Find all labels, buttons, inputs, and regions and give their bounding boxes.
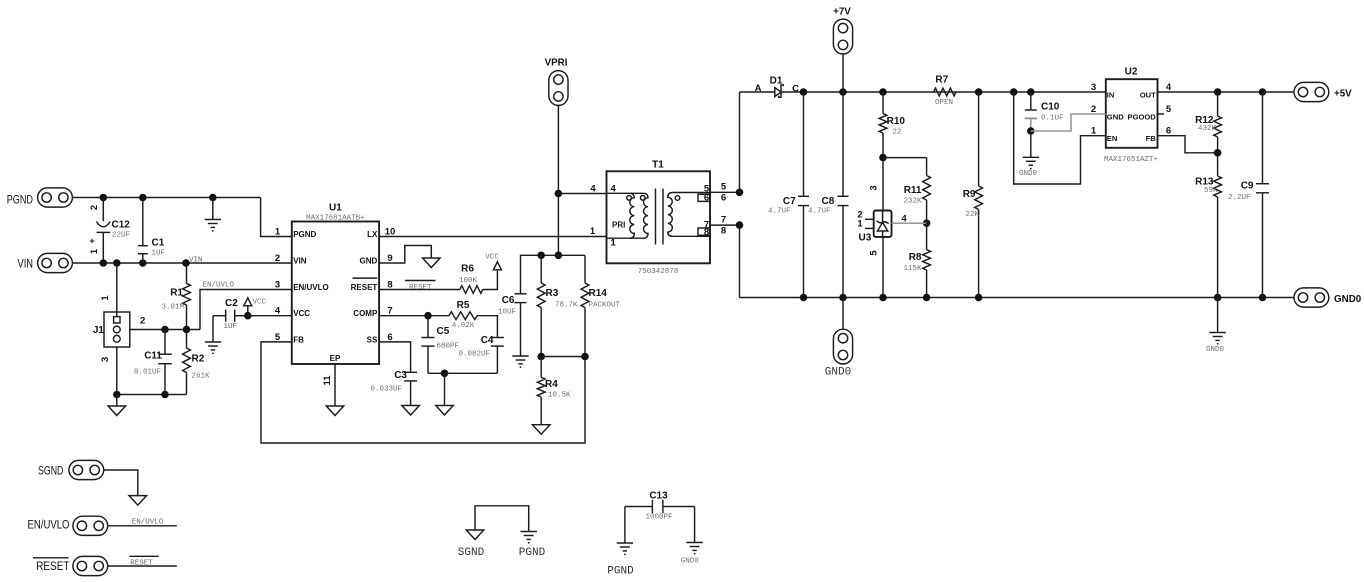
svg-text:R8: R8 (909, 252, 922, 263)
wire R3R4-R14 (541, 356, 585, 358)
resistor R2 (186, 330, 188, 349)
ground earth GND0 C13 (686, 542, 702, 544)
wire RESET (108, 565, 177, 567)
wire COMP pin7 (379, 315, 449, 317)
node D1-C7 (800, 88, 808, 96)
svg-text:78.7K: 78.7K (555, 302, 578, 310)
wire PGND rail (72, 197, 260, 199)
wire EN/UVLO (108, 525, 177, 527)
node VPRI-T1pin4 (555, 190, 563, 198)
capacitor C8 (842, 92, 844, 196)
capacitor C6 (515, 293, 527, 295)
svg-text:1: 1 (100, 295, 111, 301)
capacitor C9 (1262, 92, 1264, 184)
svg-text:LX: LX (367, 230, 378, 239)
T1 pin 7/8 outside (710, 224, 740, 226)
node COMP-C5 (424, 312, 432, 320)
svg-text:VIN: VIN (293, 257, 307, 266)
svg-text:VPRI: VPRI (545, 58, 568, 69)
wire VPRI down (557, 105, 559, 255)
svg-text:5: 5 (721, 182, 727, 193)
svg-text:VCC: VCC (485, 254, 499, 262)
svg-text:C6: C6 (502, 295, 515, 306)
ground earth R13 (1209, 332, 1225, 334)
svg-text:3: 3 (1091, 82, 1096, 93)
wire GND0 rail (740, 297, 1295, 299)
node OUT-C9 (1259, 88, 1267, 96)
svg-text:C4: C4 (481, 335, 494, 346)
svg-text:0.033UF: 0.033UF (370, 386, 402, 394)
svg-text:432K: 432K (1198, 125, 1217, 133)
diode D1 schottky (740, 91, 775, 93)
T1 pins 5/6 bracket (698, 194, 710, 201)
resistor R14 (584, 255, 586, 283)
net label RESET bottom (129, 555, 158, 557)
ground sgnd J1 (116, 395, 118, 407)
svg-text:PGND: PGND (7, 193, 33, 207)
connector +5V (1294, 82, 1329, 101)
node C10 top (1027, 88, 1035, 96)
node VIN-C12 (100, 259, 108, 267)
wire J1 pin2 to EN/UVLO (130, 329, 200, 331)
wire C5-C4 bottom (428, 372, 497, 374)
resistor R8 (926, 223, 928, 250)
node gnd-R9 (975, 294, 983, 302)
svg-text:SGND: SGND (458, 547, 485, 559)
wire +7V stem (842, 54, 844, 92)
ground earth top-left (212, 198, 214, 220)
node +7V stem (839, 88, 847, 96)
svg-text:R1: R1 (170, 288, 183, 299)
svg-text:U1: U1 (329, 203, 342, 214)
svg-text:22UF: 22UF (112, 232, 130, 240)
node PGND-C12 (100, 194, 108, 202)
svg-text:1000PF: 1000PF (645, 514, 672, 522)
svg-text:4.7UF: 4.7UF (768, 208, 791, 216)
connector J1 (116, 263, 118, 317)
svg-text:6: 6 (704, 193, 709, 204)
svg-text:R13: R13 (1195, 177, 1214, 188)
svg-text:U3: U3 (859, 233, 872, 244)
wire VCC to U1 pin4 (248, 315, 292, 317)
node VCC-C2 (244, 312, 252, 320)
svg-text:1UF: 1UF (152, 250, 166, 258)
svg-text:SS: SS (367, 335, 378, 344)
svg-text:1UF: 1UF (224, 323, 238, 331)
wire R6 to VCC (483, 270, 498, 290)
capacitor C3 (404, 371, 417, 373)
svg-text:C12: C12 (112, 220, 131, 231)
svg-text:2: 2 (275, 253, 280, 264)
svg-text:C9: C9 (1241, 181, 1254, 192)
node R12-R13 (1214, 149, 1222, 157)
wire GND pin9 to ground (379, 246, 431, 264)
power VCC arrow C2 (247, 306, 249, 316)
svg-text:4: 4 (901, 214, 907, 225)
resistor R10 (882, 92, 884, 114)
svg-text:R3: R3 (546, 288, 559, 299)
svg-text:A: A (755, 83, 762, 94)
svg-text:3.01M: 3.01M (161, 304, 184, 312)
wire divider rail (521, 255, 586, 293)
node VIN-R1 (182, 259, 190, 267)
svg-text:3: 3 (869, 185, 880, 190)
svg-text:RESET: RESET (409, 284, 432, 292)
node pin2-C11 (161, 326, 169, 334)
capacitor C7 (803, 92, 805, 196)
svg-text:J1: J1 (93, 325, 105, 336)
U1 RESET overline (353, 277, 378, 279)
ground sgnd C5C4 (444, 373, 446, 405)
svg-text:GND0: GND0 (1334, 294, 1362, 305)
wire R10-R11 (883, 157, 927, 159)
svg-text:R7: R7 (935, 75, 948, 86)
wire R5 to C4 (477, 316, 497, 338)
svg-text:D1: D1 (770, 76, 783, 87)
svg-text:C2: C2 (225, 298, 238, 309)
capacitor C10 (1030, 92, 1032, 110)
svg-text:GND0: GND0 (1206, 346, 1225, 354)
node VPRI-divider (555, 252, 563, 260)
svg-text:MAX17651AZT+: MAX17651AZT+ (1104, 156, 1159, 164)
ground sgnd R4 (532, 425, 550, 435)
T1 core (655, 189, 657, 245)
svg-text:VCC: VCC (253, 299, 267, 307)
svg-text:EN/UVLO: EN/UVLO (132, 519, 164, 527)
svg-text:R2: R2 (192, 354, 205, 365)
node gnd-R13 (1214, 294, 1222, 302)
svg-text:+: + (87, 238, 98, 244)
node gnd-R8 (923, 294, 931, 302)
node VIN-J1 (113, 259, 121, 267)
svg-text:EP: EP (330, 354, 341, 363)
wire +7V rail (804, 91, 1106, 93)
svg-text:1: 1 (611, 238, 617, 249)
svg-text:100K: 100K (459, 277, 478, 285)
node gnd-C9 (1259, 294, 1267, 302)
svg-text:C11: C11 (144, 351, 162, 362)
svg-text:4.7UF: 4.7UF (808, 208, 831, 216)
svg-text:R5: R5 (457, 300, 470, 311)
svg-text:+7V: +7V (833, 7, 851, 18)
svg-text:EN/UVLO: EN/UVLO (28, 518, 70, 532)
svg-text:C3: C3 (394, 370, 407, 381)
capacitor C2 (225, 310, 227, 322)
svg-text:R14: R14 (589, 288, 608, 299)
svg-text:C: C (792, 83, 799, 94)
node R3 top (537, 252, 545, 260)
svg-text:FB: FB (1146, 134, 1157, 143)
svg-text:R6: R6 (461, 264, 474, 275)
svg-text:C5: C5 (437, 326, 450, 337)
node gnd-U3 (879, 294, 887, 302)
svg-text:PGOOD: PGOOD (1128, 112, 1157, 121)
node R10 top (879, 88, 887, 96)
U1 pin 11 EP stub (334, 364, 336, 406)
svg-text:COMP: COMP (353, 309, 378, 318)
svg-text:4.02K: 4.02K (452, 322, 475, 330)
capacitor C1 (142, 198, 144, 246)
ground earth PGND C13 (617, 542, 633, 544)
svg-text:PGND: PGND (293, 230, 316, 239)
svg-text:R10: R10 (887, 116, 906, 127)
node R3-R4 (537, 353, 545, 361)
node bottom-J1 (113, 391, 121, 399)
svg-text:2.2UF: 2.2UF (1228, 194, 1251, 202)
svg-text:4: 4 (590, 183, 596, 194)
ground earth bridge (521, 531, 537, 533)
node VIN-C1 (139, 259, 147, 267)
T1 primary winding A (607, 192, 644, 194)
resistor R5 (449, 312, 477, 320)
resistor R4 (540, 357, 542, 378)
svg-text:C8: C8 (822, 196, 835, 207)
resistor R7 (934, 88, 956, 96)
svg-text:PGND: PGND (519, 547, 546, 559)
node EN loop (1010, 88, 1018, 96)
svg-text:VIN: VIN (18, 257, 34, 271)
svg-text:1: 1 (857, 219, 863, 230)
ground sgnd SGND (129, 496, 147, 506)
svg-text:R4: R4 (545, 379, 558, 390)
svg-text:3: 3 (275, 280, 280, 291)
ground earth C10 (1023, 156, 1039, 158)
svg-text:C10: C10 (1041, 102, 1060, 113)
ground sgnd bridge (466, 530, 484, 540)
svg-text:750342878: 750342878 (638, 268, 679, 276)
net label RESET with overline (405, 280, 435, 282)
wire RESET pin8 (379, 289, 460, 291)
svg-text:MAX17681AATB+: MAX17681AATB+ (306, 215, 365, 223)
svg-text:0.01UF: 0.01UF (134, 369, 161, 377)
node pin2-R1R2 (183, 326, 191, 334)
svg-text:GND0: GND0 (681, 558, 700, 566)
svg-text:OUT: OUT (1140, 90, 1156, 99)
svg-text:EN/UVLO: EN/UVLO (203, 282, 235, 290)
node R11-R8-U3 (923, 219, 931, 227)
wire PGND to U1 pin1 (261, 198, 292, 237)
svg-text:RESET: RESET (351, 283, 378, 292)
svg-text:261K: 261K (192, 373, 211, 381)
svg-text:GND0: GND0 (825, 367, 851, 379)
resistor R3 (540, 255, 542, 283)
wire SGND-PGND bridge (475, 506, 529, 532)
svg-text:1: 1 (275, 227, 281, 238)
wire C13 right (694, 507, 696, 543)
wire bottom row J1 (117, 394, 187, 396)
svg-text:1: 1 (590, 226, 596, 237)
svg-text:0.1UF: 0.1UF (1041, 115, 1064, 123)
capacitor C12 (102, 198, 104, 222)
node gnd-C7 (800, 294, 808, 302)
svg-text:7: 7 (721, 215, 726, 226)
svg-text:11: 11 (322, 375, 333, 386)
svg-text:5: 5 (1166, 104, 1172, 115)
power VCC arrow R6 (493, 262, 501, 270)
node R14-FB (581, 353, 589, 361)
wire J1 pin3 down (116, 347, 118, 395)
capacitor C11 (164, 330, 166, 355)
svg-text:PGND: PGND (607, 566, 634, 578)
regulator U2 MAX17651AZT+ (1106, 79, 1158, 148)
U2 EN pin1 wire (1014, 92, 1106, 184)
svg-text:22K: 22K (965, 211, 979, 219)
svg-text:680PF: 680PF (437, 343, 460, 351)
wire R13 earth (1217, 298, 1219, 333)
node gnd-C5C4 (441, 370, 449, 378)
wire SGND (104, 470, 138, 496)
node sec top (736, 189, 744, 197)
T1 pin 5/6 outside (710, 191, 740, 193)
svg-text:IN: IN (1107, 90, 1115, 99)
svg-text:C7: C7 (783, 196, 796, 207)
svg-text:2: 2 (89, 205, 100, 210)
node R10 bottom (879, 154, 887, 162)
node bottom-C11 (161, 391, 169, 399)
U3 pin5 wire (882, 237, 884, 298)
svg-text:PRI: PRI (612, 220, 625, 229)
wire C10 to earth (1030, 131, 1032, 157)
svg-text:+5V: +5V (1334, 89, 1352, 100)
wire sec top to D1 (739, 92, 741, 192)
svg-text:RESET: RESET (36, 559, 70, 573)
svg-text:6: 6 (721, 193, 726, 204)
capacitor C5 (427, 316, 429, 338)
node R9 top (975, 88, 983, 96)
svg-text:10UF: 10UF (498, 309, 516, 317)
svg-text:115K: 115K (903, 265, 922, 273)
svg-text:VIN: VIN (189, 257, 203, 265)
T1 pin1 wire (607, 237, 644, 239)
ground earth C2 (212, 316, 214, 342)
resistor R11 (923, 176, 931, 201)
svg-text:RESET: RESET (130, 560, 153, 568)
wire C13 left (624, 507, 626, 544)
svg-text:PACKOUT: PACKOUT (589, 302, 621, 310)
T1 secondary winding (668, 193, 673, 237)
svg-text:OPEN: OPEN (935, 99, 953, 107)
svg-text:3: 3 (100, 357, 111, 362)
op-amp U1 MAX17681AATB+ (292, 222, 379, 365)
capacitor C13 (651, 500, 653, 514)
wire SS pin6 to C3 (379, 342, 411, 372)
shunt regulator U3 (882, 158, 884, 211)
wire sec bottom to gnd rail (739, 225, 741, 297)
transformer T1 750342878 (607, 171, 711, 263)
node sec bottom (736, 221, 744, 229)
svg-text:EN: EN (1107, 134, 1118, 143)
svg-text:8: 8 (721, 226, 726, 237)
capacitor C4 (491, 337, 504, 339)
svg-text:U2: U2 (1125, 67, 1138, 78)
svg-text:GND0: GND0 (1019, 170, 1038, 178)
svg-text:C13: C13 (649, 491, 668, 502)
U2 GND pin2 wire (1031, 114, 1106, 131)
svg-text:0.082UF: 0.082UF (458, 351, 490, 359)
resistor R6 (460, 286, 483, 294)
svg-text:4: 4 (275, 306, 281, 317)
svg-text:R9: R9 (963, 189, 976, 200)
ground sgnd EP (326, 406, 344, 416)
svg-text:232K: 232K (903, 198, 922, 206)
node PGND-C1 (139, 194, 147, 202)
U3 pin4 wire (892, 222, 927, 224)
svg-text:R11: R11 (904, 185, 922, 196)
wire VIN rail (72, 262, 291, 264)
node gnd-C8-conn (839, 294, 847, 302)
svg-text:2: 2 (140, 316, 145, 327)
svg-text:EN/UVLO: EN/UVLO (293, 283, 329, 292)
U2 FB wire (1158, 136, 1218, 153)
resistor R9 (978, 92, 980, 186)
wire T1 pin4 (558, 193, 606, 195)
ground sgnd pin9 (423, 258, 441, 268)
svg-text:VCC: VCC (293, 309, 310, 318)
wire LX to T1 pin1 (379, 236, 606, 238)
wire FB loop (261, 342, 585, 443)
ground sgnd C3 (402, 406, 420, 416)
svg-text:FB: FB (293, 335, 304, 344)
ground earth C6 (512, 355, 528, 357)
U2 OUT wire (1158, 91, 1295, 93)
connector GND0 mid (842, 298, 844, 330)
svg-text:T1: T1 (652, 160, 664, 171)
resistor R13 (1217, 153, 1219, 176)
connector GND0 right (1294, 288, 1329, 307)
resistor R12 (1217, 92, 1219, 116)
svg-text:59K: 59K (1204, 187, 1218, 195)
node PGND-gnd (209, 194, 217, 202)
T1 primary winding B (644, 193, 649, 238)
svg-text:5: 5 (869, 250, 880, 256)
svg-text:10.5K: 10.5K (548, 392, 571, 400)
svg-text:GND: GND (1107, 112, 1124, 121)
T1 pins 7/8 bracket (698, 228, 710, 235)
node C10-GND (1027, 127, 1035, 135)
U2 PGOOD stub (1158, 113, 1165, 115)
node OUT-R12 (1214, 88, 1222, 96)
svg-text:C1: C1 (152, 238, 165, 249)
resistor R1 (186, 263, 188, 284)
svg-text:1: 1 (89, 248, 100, 254)
svg-text:22: 22 (892, 129, 901, 137)
svg-text:8: 8 (704, 227, 709, 238)
svg-text:GND: GND (360, 257, 378, 266)
svg-text:SGND: SGND (38, 463, 63, 477)
